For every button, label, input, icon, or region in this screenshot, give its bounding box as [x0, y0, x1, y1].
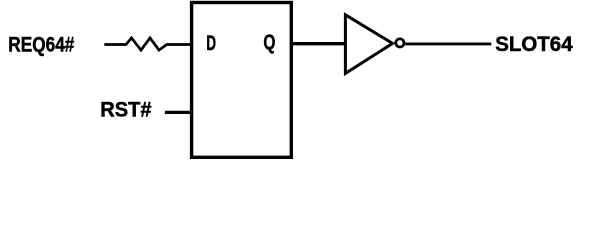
svg-text:REQ64#: REQ64#	[8, 33, 74, 57]
svg-text:D: D	[206, 31, 216, 55]
svg-text:SLOT64: SLOT64	[495, 32, 573, 56]
wire Q output to inverter	[291, 42, 345, 45]
flip-flop U1 body	[192, 3, 292, 158]
svg-text:RST#: RST#	[100, 98, 151, 122]
inverter U2 triangle	[345, 15, 392, 74]
wire RST# to flip-flop	[165, 111, 192, 114]
wire from REQ64# to resistor and resistor R1 (series termination)	[104, 38, 191, 50]
wire inverter to SLOT64	[405, 42, 491, 45]
inverter U2 output bubble	[396, 39, 404, 47]
svg-text:Q: Q	[263, 30, 275, 54]
